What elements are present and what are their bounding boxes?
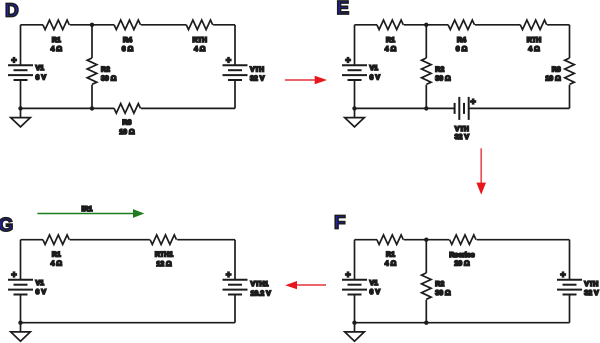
- svg-text:32 V: 32 V: [455, 134, 470, 141]
- svg-text:R1: R1: [386, 252, 395, 259]
- svg-text:4 Ω: 4 Ω: [385, 261, 397, 268]
- svg-text:R4: R4: [457, 37, 466, 44]
- svg-text:6 Ω: 6 Ω: [456, 46, 468, 53]
- svg-text:6 V: 6 V: [370, 289, 381, 296]
- svg-text:IR1: IR1: [82, 206, 93, 213]
- svg-text:R2: R2: [435, 281, 444, 288]
- svg-text:+: +: [226, 270, 231, 280]
- svg-text:+: +: [345, 270, 350, 280]
- svg-text:+: +: [11, 270, 16, 280]
- svg-text:E: E: [337, 0, 350, 19]
- svg-text:+: +: [345, 55, 350, 65]
- svg-text:VTH: VTH: [250, 67, 264, 74]
- svg-text:R4: R4: [123, 37, 132, 44]
- svg-text:R1: R1: [386, 37, 395, 44]
- svg-text:V1: V1: [370, 280, 379, 287]
- svg-text:V1: V1: [36, 280, 45, 287]
- svg-text:6 V: 6 V: [36, 289, 47, 296]
- svg-text:30 Ω: 30 Ω: [101, 75, 117, 82]
- svg-text:10 Ω: 10 Ω: [119, 129, 135, 136]
- svg-text:6 Ω: 6 Ω: [122, 46, 134, 53]
- svg-text:6 V: 6 V: [370, 74, 381, 81]
- svg-text:6 V: 6 V: [36, 74, 47, 81]
- svg-text:R1: R1: [52, 37, 61, 44]
- svg-text:4 Ω: 4 Ω: [385, 46, 397, 53]
- svg-text:VTH: VTH: [584, 281, 598, 288]
- svg-text:D: D: [5, 0, 19, 21]
- svg-text:32 V: 32 V: [584, 290, 599, 297]
- svg-text:4 Ω: 4 Ω: [194, 46, 206, 53]
- svg-text:4 Ω: 4 Ω: [51, 261, 63, 268]
- svg-text:G: G: [0, 215, 13, 236]
- svg-text:RTH: RTH: [527, 37, 541, 44]
- svg-text:4 Ω: 4 Ω: [528, 46, 540, 53]
- svg-text:R6: R6: [552, 66, 561, 73]
- svg-text:V1: V1: [36, 65, 45, 72]
- svg-text:F: F: [334, 212, 346, 233]
- svg-text:RTH1: RTH1: [155, 252, 173, 259]
- svg-text:19.2 V: 19.2 V: [251, 291, 272, 298]
- svg-text:V1: V1: [370, 65, 379, 72]
- svg-text:12 Ω: 12 Ω: [156, 261, 172, 268]
- svg-text:R2: R2: [101, 66, 110, 73]
- svg-text:4 Ω: 4 Ω: [51, 46, 63, 53]
- svg-text:+: +: [560, 270, 565, 280]
- svg-text:+: +: [11, 55, 16, 65]
- svg-text:RTH: RTH: [193, 37, 207, 44]
- svg-text:VTH1: VTH1: [251, 281, 269, 288]
- svg-text:R1: R1: [52, 252, 61, 259]
- svg-text:30 Ω: 30 Ω: [435, 290, 451, 297]
- svg-text:20 Ω: 20 Ω: [454, 261, 470, 268]
- svg-text:Rseries: Rseries: [449, 251, 474, 259]
- svg-text:VTH: VTH: [455, 126, 469, 133]
- svg-text:32 V: 32 V: [250, 75, 265, 82]
- svg-text:10 Ω: 10 Ω: [545, 75, 561, 82]
- svg-text:30 Ω: 30 Ω: [435, 75, 451, 82]
- svg-text:+: +: [226, 55, 231, 65]
- svg-text:R2: R2: [435, 66, 444, 73]
- svg-text:R6: R6: [122, 120, 131, 127]
- svg-text:+: +: [470, 96, 475, 106]
